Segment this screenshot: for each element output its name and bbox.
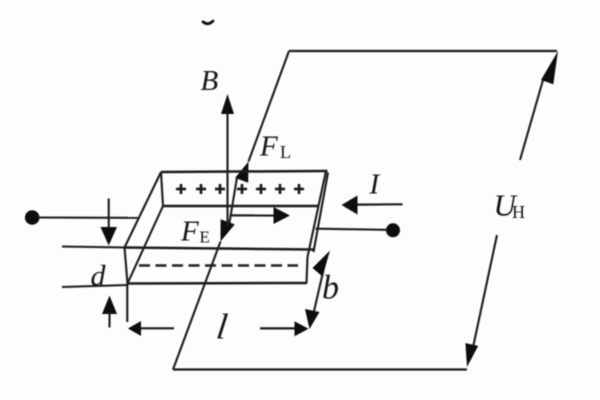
svg-text:d: d (91, 260, 107, 293)
svg-text:B: B (201, 65, 219, 97)
svg-text:F: F (259, 131, 278, 163)
svg-text:I: I (369, 169, 381, 201)
svg-text:L: L (280, 142, 291, 162)
svg-text:E: E (200, 228, 210, 247)
svg-text:F: F (180, 216, 199, 248)
svg-text:b: b (322, 270, 339, 307)
svg-text:H: H (512, 202, 525, 222)
